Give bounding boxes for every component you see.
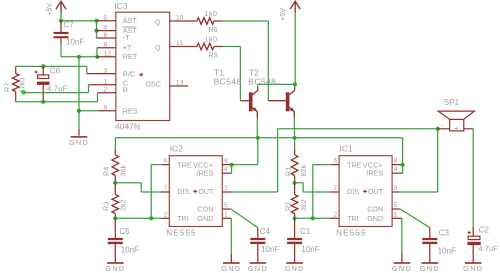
svg-text:NE555: NE555 (336, 229, 367, 238)
svg-text:4: 4 (104, 24, 108, 31)
svg-text:3: 3 (224, 185, 228, 192)
svg-text:CON: CON (197, 205, 213, 214)
wire +5V rail down (294, 13, 296, 85)
svg-text:4: 4 (394, 166, 398, 173)
wire IC2 GND pin down (230, 218, 232, 254)
svg-text:GND: GND (420, 264, 440, 273)
wire emitter line to IC1 VCC (402, 138, 404, 173)
pin 9 stub (99, 110, 116, 112)
resistor R3 2k2 (114, 183, 116, 195)
wire R1/R2 junction to IC1 DIS (295, 182, 304, 184)
svg-text:7: 7 (164, 185, 168, 192)
ground GND under IC1 (394, 262, 411, 264)
wire IC2 TRI line (115, 217, 160, 219)
wire R6 to T2 base (223, 20, 269, 22)
node TRE loop junction IC1 (311, 216, 315, 220)
svg-text:7: 7 (334, 185, 338, 192)
node T2 emitter junction (293, 136, 297, 140)
svg-text:AST: AST (123, 16, 138, 25)
wire IC2 OUT (232, 191, 278, 193)
svg-text:+5V: +5V (45, 3, 54, 16)
node bright junction near R7 (21, 90, 26, 95)
svg-text:1: 1 (394, 211, 398, 218)
svg-text:R/C: R/C (123, 70, 135, 79)
wire IC1 GND pin down (401, 218, 403, 254)
svg-text:TRI: TRI (177, 214, 189, 223)
svg-text:2: 2 (164, 211, 168, 218)
capacitor C5 10nF (114, 218, 116, 238)
svg-text:36k: 36k (119, 165, 128, 177)
svg-text:1: 1 (224, 211, 228, 218)
svg-text:8: 8 (394, 158, 398, 165)
svg-text:IC2: IC2 (170, 143, 184, 153)
svg-text:GND: GND (285, 264, 305, 273)
svg-text:GND: GND (463, 264, 483, 273)
svg-text:BC548: BC548 (248, 77, 276, 87)
svg-text:8: 8 (104, 42, 108, 49)
wire RC loop bottom to pin2 (16, 101, 98, 103)
svg-text:C1: C1 (300, 227, 311, 236)
wire pins 5/4/6 bus (96, 21, 98, 38)
ground GND under C3 (422, 262, 439, 264)
svg-text:-T: -T (123, 33, 130, 42)
svg-text:GND: GND (197, 214, 213, 223)
svg-text:DIS: DIS (177, 187, 189, 196)
pin stubs IC1 right (392, 164, 403, 166)
svg-text:Q: Q (155, 20, 161, 27)
pin 2 stub (98, 92, 116, 94)
svg-text:CON: CON (367, 205, 383, 214)
capacitor C1 10nF (294, 218, 296, 238)
op-amp U1 IC3 4047N box (116, 12, 170, 120)
svg-text:12: 12 (104, 51, 112, 58)
svg-text:OSC: OSC (145, 80, 161, 89)
ground GND under C1 (286, 262, 303, 264)
svg-text:4.7uF: 4.7uF (478, 244, 498, 253)
svg-text:-: - (466, 123, 468, 128)
wire IC1 CON diagonal to C3 (400, 209, 430, 228)
svg-text:10nF: 10nF (438, 247, 456, 256)
svg-text:5: 5 (394, 202, 398, 209)
svg-text:1k0: 1k0 (204, 34, 217, 43)
resistor R2 2k2 (294, 183, 296, 195)
node +5V collector junction (293, 82, 297, 86)
svg-text:+5V: +5V (278, 8, 287, 21)
svg-text:TRE: TRE (177, 161, 192, 170)
wire collector rail T1-T2 (258, 83, 295, 85)
pin 13 OSC stub (170, 85, 188, 87)
svg-text:5: 5 (224, 202, 228, 209)
node R1/R2 junction (293, 181, 297, 185)
wire IC2 OUT up (277, 129, 279, 192)
svg-text:C4: C4 (260, 227, 271, 236)
svg-text:10nF: 10nF (301, 245, 319, 254)
svg-text:R7: R7 (3, 83, 12, 92)
wire RC loop top (16, 65, 87, 67)
node IC2 VCC junction (230, 163, 234, 167)
node pin5 junction (94, 19, 98, 23)
power +5V symbol (left) (56, 1, 66, 9)
svg-text:GND: GND (69, 138, 89, 147)
svg-text:R5: R5 (208, 51, 217, 60)
wire IC2 VCC from emitter line (257, 138, 259, 165)
svg-text:+: + (441, 123, 444, 128)
svg-text:+T: +T (123, 43, 132, 52)
node R2 bottom junction (293, 216, 297, 220)
power +5V symbol (right) (290, 1, 300, 9)
svg-text:GND: GND (392, 264, 412, 273)
svg-text:10nF: 10nF (121, 246, 139, 255)
svg-text:/RES: /RES (197, 169, 214, 178)
svg-text:DIS: DIS (347, 187, 359, 196)
svg-text:OUT: OUT (368, 187, 384, 196)
pin stubs IC2 left (162, 164, 170, 166)
capacitor C6 polarized 4.7uF (41, 64, 45, 68)
node TRE loop junction IC2 (149, 216, 153, 220)
svg-text:Q: Q (155, 45, 161, 52)
capacitor C2 polarized 4.7uF (472, 227, 474, 236)
ground GND under C5 (107, 262, 124, 264)
svg-text:C7: C7 (64, 21, 75, 30)
capacitor C7 (60, 21, 62, 32)
wire R5 to T1 base (223, 46, 241, 48)
svg-text:8: 8 (224, 158, 228, 165)
pin stubs IC1 left (332, 164, 340, 166)
svg-text:1: 1 (104, 79, 108, 86)
pin 3 stub (87, 73, 116, 75)
op-amp U2 IC2 NE555 box (169, 156, 222, 227)
svg-text:IC1: IC1 (340, 143, 354, 153)
wire IC2 VCC to /RES (231, 165, 233, 174)
speaker SP1 (438, 111, 474, 119)
node C6 bottom junction (41, 100, 45, 104)
resistor R5 1k0 (170, 46, 197, 48)
svg-text:BC548: BC548 (214, 77, 242, 87)
svg-text:RES: RES (123, 107, 138, 116)
svg-text:R: R (123, 86, 128, 95)
wire ground vertical x79 (78, 57, 80, 129)
transistor Q1 T1 BC548 (257, 84, 259, 87)
svg-text:6: 6 (104, 32, 108, 39)
pin 4 stub (97, 30, 116, 32)
svg-text:82k: 82k (299, 165, 308, 177)
pin 6 stub (97, 37, 116, 39)
svg-text:6: 6 (164, 158, 168, 165)
node IC1 VCC junction (401, 163, 405, 167)
pin 5 stub (97, 20, 116, 22)
svg-text:2: 2 (104, 87, 108, 94)
svg-text:GND: GND (248, 264, 268, 273)
svg-text:R4: R4 (102, 167, 111, 176)
svg-text:RET: RET (123, 52, 138, 61)
ground GND under IC2 (223, 262, 240, 264)
svg-text:4: 4 (224, 166, 228, 173)
resistor R1 82k (294, 138, 296, 149)
svg-text:R3: R3 (102, 202, 111, 211)
svg-text:R2: R2 (283, 202, 292, 211)
node T1 emitter junction (256, 136, 260, 140)
wire IC1 TRE loop (312, 165, 314, 219)
wire IC2 CON diagonal to C4 (231, 209, 258, 228)
wire pin8 to pin12 (96, 48, 98, 57)
wire OUT bus to speaker (278, 128, 438, 130)
wire pin1 net (24, 92, 89, 94)
wire pin9 RES (79, 110, 99, 112)
svg-text:C2: C2 (479, 226, 490, 235)
ground GND under IC3 (78, 129, 80, 136)
svg-text:2k2: 2k2 (119, 199, 128, 211)
pin stubs IC2 right (222, 164, 231, 166)
svg-text:10nF: 10nF (66, 37, 84, 46)
resistor R7 (15, 66, 17, 73)
wire speaker to C2 (472, 129, 474, 227)
wire +5V to C7/pins (60, 13, 62, 21)
svg-text:1k0: 1k0 (204, 9, 217, 18)
ground GND under C4 (250, 262, 267, 264)
ground GND under C2 (465, 262, 482, 264)
pin 8 stub (97, 47, 116, 49)
svg-text:GND: GND (105, 264, 125, 273)
wire IC2 TRE loop (150, 165, 152, 219)
svg-text:6: 6 (334, 158, 338, 165)
svg-text:R1: R1 (283, 167, 292, 176)
wire IC1 TRI line (295, 217, 331, 219)
svg-text:C6: C6 (50, 67, 61, 76)
svg-text:GND: GND (221, 264, 241, 273)
wire emitter supply line (115, 137, 402, 139)
resistor R6 1k0 (170, 20, 197, 22)
svg-text:4047N: 4047N (115, 121, 140, 131)
node R3 bottom junction (113, 216, 117, 220)
wire R4/R3 junction to IC2 DIS (115, 182, 141, 184)
svg-text:SP1: SP1 (444, 98, 460, 107)
node pin12 junction (95, 55, 99, 59)
node pin4 junction (94, 29, 98, 33)
wire T1 emitter down (256, 118, 258, 138)
svg-text:C5: C5 (119, 227, 130, 236)
wire C7 bottom to pin12 row (60, 44, 62, 57)
svg-text:NE555: NE555 (166, 229, 197, 238)
node +5V junction at C7 (59, 19, 63, 23)
resistor R4 36k (114, 138, 116, 150)
capacitor C4 10nF (257, 228, 259, 238)
svg-text:9: 9 (104, 105, 108, 112)
svg-text:IC3: IC3 (114, 1, 128, 11)
svg-text:GND: GND (367, 214, 383, 223)
svg-text:/RES: /RES (366, 169, 383, 178)
svg-text:5: 5 (104, 15, 108, 22)
svg-text:3: 3 (394, 185, 398, 192)
node junction x79 (77, 55, 81, 59)
transistor Q2 T2 BC548 (294, 84, 296, 88)
svg-text:C3: C3 (439, 229, 450, 238)
svg-text:2: 2 (334, 211, 338, 218)
svg-text:TRE: TRE (347, 161, 362, 170)
node speaker junction (436, 127, 440, 131)
op-amp U3 IC1 NE555 box (339, 156, 392, 227)
svg-text:2k2: 2k2 (299, 199, 308, 211)
svg-text:3: 3 (104, 67, 108, 74)
svg-text:R6: R6 (208, 25, 217, 34)
node pin9 junction (77, 109, 81, 113)
svg-text:OUT: OUT (198, 187, 214, 196)
svg-text:TRI: TRI (347, 214, 359, 223)
pin 12 stub (97, 56, 116, 58)
capacitor C3 10nF (429, 228, 431, 238)
wire speaker to IC1 OUT (437, 129, 439, 192)
pin 1 stub (89, 84, 116, 86)
node R4/R3 junction (113, 181, 117, 185)
svg-text:10nF: 10nF (261, 245, 279, 254)
wire T2 emitter down (293, 118, 295, 138)
